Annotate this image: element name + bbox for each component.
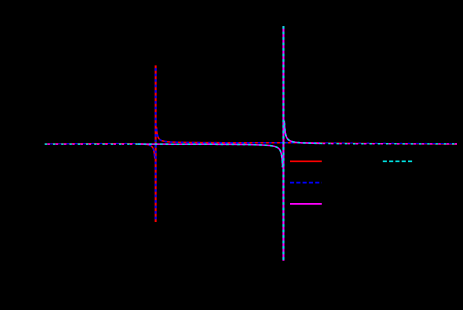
curve cyan dashed right branch from pole x=283.45: [284, 121, 320, 144]
curve red solid left bend into pole x=155.65: [138, 144, 155, 159]
legend sample blue dashed: [290, 182, 322, 184]
curve magenta solid right branch from pole x=283.45: [284, 121, 320, 144]
curve magenta solid asymptote jump at x=283.45: [282, 26, 284, 261]
curve red solid asymptote jump at x=155.65: [155, 65, 157, 222]
curve cyan dashed asymptote jump at x=283.45: [282, 26, 284, 261]
curve magenta solid left branch to pole x=283.45: [138, 144, 283, 167]
curve cyan dashed left branch to pole x=283.45: [138, 144, 283, 167]
curve blue dashed far-left segment: [45, 142, 138, 144]
curve red solid far-right segment: [320, 143, 457, 145]
curve cyan dashed far-left segment: [45, 143, 138, 145]
curve blue dashed far-right segment: [320, 142, 457, 145]
curve cyan dashed far-right segment: [320, 142, 457, 144]
curve red solid far-left segment (asymptote y=142.9): [45, 142, 138, 144]
curve blue dashed right bend from pole x=155.65: [157, 127, 320, 142]
curve red solid right bend from pole x=155.65: [157, 127, 320, 142]
legend sample cyan dashed: [383, 160, 413, 162]
legend sample red solid: [290, 160, 322, 162]
curve blue dashed left bend into pole x=155.65: [138, 144, 155, 159]
curve magenta far-right segment dashed: [320, 142, 457, 144]
curve magenta far-left segment dashed (asymptote y=144.0): [45, 143, 138, 145]
curve blue dashed asymptote jump at x=155.65: [155, 65, 157, 222]
legend sample magenta solid: [290, 203, 322, 205]
